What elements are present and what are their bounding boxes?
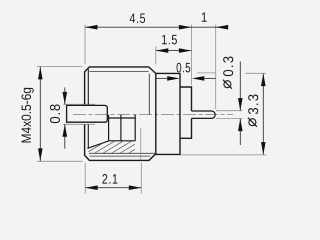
- front face inner line lower: [87, 124, 89, 148]
- extension line M4 bottom: [37, 160, 83, 162]
- label M4x0.5-6g: [21, 88, 33, 143]
- front face inner line upper: [87, 69, 89, 104]
- extension line for 4.5 left: [84, 25, 86, 65]
- dimension 0.5 line left tail: [156, 77, 167, 79]
- arrow d0.3 top (points down): [238, 98, 243, 111]
- label 1: [202, 12, 207, 21]
- solder pin d0.3: [192, 111, 216, 118]
- label 1.5: [162, 35, 177, 45]
- extension line 0.8 bottom: [63, 123, 95, 125]
- thread minor line top: [89, 70, 148, 72]
- dimension d0.3 line bottom segment: [239, 119, 241, 145]
- hidden bore line: [140, 128, 142, 160]
- arrow 0.5 left: [167, 76, 180, 81]
- extension line at flange right face (4.5/1/1.5/0.5 dims): [190, 25, 192, 86]
- insulator boss left edge: [108, 115, 110, 141]
- arrow 1.5 right: [179, 48, 192, 53]
- arrow 2.1 left: [85, 185, 98, 190]
- extension line d3.3 top: [246, 72, 267, 74]
- section hatching: [78, 138, 163, 158]
- extension line 2.1 right: [140, 163, 142, 194]
- arrow 2.1 right: [129, 185, 142, 190]
- label 2.1: [102, 174, 117, 184]
- extension line pin bottom (d0.3): [216, 118, 243, 120]
- arrow 4.5 left: [85, 25, 98, 30]
- arrow d3.3 bottom (points down): [261, 142, 266, 155]
- extension line d3.3 top (left segment): [197, 72, 216, 74]
- extension line at pin tip (1 dim right): [215, 25, 217, 110]
- extension line pin top (d0.3): [216, 110, 243, 112]
- dimension 2.1 line: [85, 187, 141, 189]
- rear flange outline: [180, 87, 192, 138]
- disc d3.3 outline: [155, 73, 180, 154]
- extension line 2.1 left: [84, 163, 86, 194]
- body M4 outline: [85, 67, 156, 160]
- shell inner bottom line: [89, 152, 156, 154]
- extension line for 1.5 left (body right face): [155, 47, 157, 65]
- dimension 0.8 line bottom segment: [64, 124, 66, 148]
- arrow 1 right (outside): [216, 25, 229, 30]
- dimension d3.3 line: [262, 74, 264, 155]
- label 0.5: [177, 63, 191, 73]
- insulator boss divider: [120, 115, 122, 141]
- arrow 0.5 right: [192, 76, 205, 81]
- insulator boss top edge: [109, 117, 136, 119]
- arrow 1.5 left: [156, 48, 169, 53]
- label d3.3: [248, 95, 258, 115]
- dimension 4.5 / 1 shared dimension line: [85, 26, 228, 28]
- label 4.5: [130, 13, 145, 23]
- arrow M4 top: [38, 67, 43, 80]
- terminal tab (center contact): [67, 105, 108, 122]
- insulator boss bottom edge: [109, 140, 136, 142]
- dimension 1.5 line: [156, 50, 192, 52]
- label d0.3: [223, 57, 233, 77]
- cone wall diagonal left: [87, 141, 108, 149]
- arrow d3.3 top (points up): [261, 74, 266, 87]
- arrow 4.5 right / 1 left: [179, 25, 192, 30]
- arrow d0.3 bottom (points up): [238, 119, 243, 132]
- extension line 0.8 top: [63, 103, 95, 105]
- thread minor line bottom: [90, 155, 151, 157]
- dimension M4x0.5-6g line: [39, 67, 41, 162]
- extension line M4 top: [37, 65, 83, 67]
- label 0.8: [50, 104, 60, 123]
- insulator boss right edge: [134, 115, 136, 141]
- thread runout line: [148, 74, 150, 115]
- centerline (part axis): [73, 114, 233, 116]
- extension line d3.3 bottom: [181, 154, 267, 156]
- dimension d0.3 line top segment: [239, 62, 241, 111]
- dimension 0.5 line right tail: [205, 77, 216, 79]
- arrow 0.8 top (points down): [63, 92, 68, 105]
- arrow M4 bottom: [38, 148, 43, 161]
- arrow 0.8 bottom (points up): [63, 124, 68, 137]
- dimension 0.8 line top segment: [64, 87, 66, 104]
